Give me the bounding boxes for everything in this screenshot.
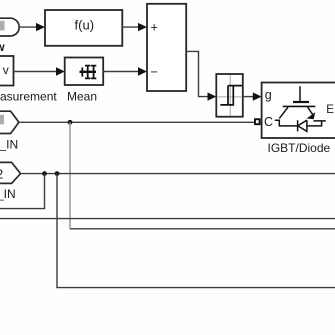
relay block	[216, 74, 243, 117]
wire: tag2 to right edge	[21, 173, 335, 175]
wire: Mean to sum -	[103, 67, 147, 75]
from tag pentagon 1 (cut at left edge)	[0, 111, 19, 133]
svg-text:f(u): f(u)	[75, 18, 95, 33]
IGBT icon: gate lead	[275, 86, 326, 131]
Mean block	[65, 58, 104, 86]
wire: junction down then right (grey vertical)	[69, 122, 71, 229]
svg-text:_IN: _IN	[0, 138, 18, 152]
IGBT icon: diode	[298, 120, 307, 131]
from tag pentagon 2 (cut at left edge)	[0, 162, 21, 183]
unconnected port square at C	[255, 119, 260, 124]
IGBT icon: emitter arrowhead	[307, 112, 316, 119]
svg-text:+: +	[151, 21, 158, 35]
svg-text:Mean: Mean	[67, 90, 97, 104]
svg-text:g: g	[265, 88, 272, 102]
IGBT/Diode block (cut at right edge)	[262, 83, 335, 139]
svg-text:IGBT/Diode: IGBT/Diode	[268, 141, 331, 155]
wire: junction A down then left off edge	[0, 174, 45, 209]
svg-text:−: −	[151, 65, 158, 79]
junction B on tag2 wire	[55, 171, 60, 176]
function block f(u)	[45, 10, 122, 46]
svg-text:2: 2	[0, 167, 3, 181]
IGBT icon: collector diagonal and C lead	[275, 107, 298, 126]
svg-text:w: w	[0, 40, 5, 54]
wire: relay to IGBT gate g	[243, 92, 262, 100]
IGBT icon: emitter lead to E	[307, 121, 326, 126]
inport tag w (stadium block, cut at left edge)	[0, 18, 19, 36]
measurement block v (cut at left edge)	[0, 56, 14, 86]
svg-text:E: E	[326, 104, 334, 116]
junction on tag1 wire	[68, 120, 73, 125]
wire: f(u) to sum +	[122, 23, 147, 31]
svg-text:asurement: asurement	[0, 90, 57, 104]
wire: junction B down then right off edge	[57, 174, 335, 288]
wire: long horizontal from left edge	[0, 218, 335, 220]
wire: tag1 to IGBT collector C	[19, 121, 255, 123]
svg-text:_IN: _IN	[0, 187, 16, 201]
wire: sum output to relay	[186, 51, 216, 100]
svg-text:C: C	[264, 115, 273, 129]
wire: v block to Mean	[14, 67, 65, 75]
sum (add/subtract) block	[147, 4, 186, 91]
svg-text:v: v	[3, 63, 9, 77]
IGBT icon: emitter diagonal	[308, 107, 314, 117]
wire: w inport to f(u)	[19, 23, 45, 31]
junction A on tag2 wire	[42, 171, 47, 176]
